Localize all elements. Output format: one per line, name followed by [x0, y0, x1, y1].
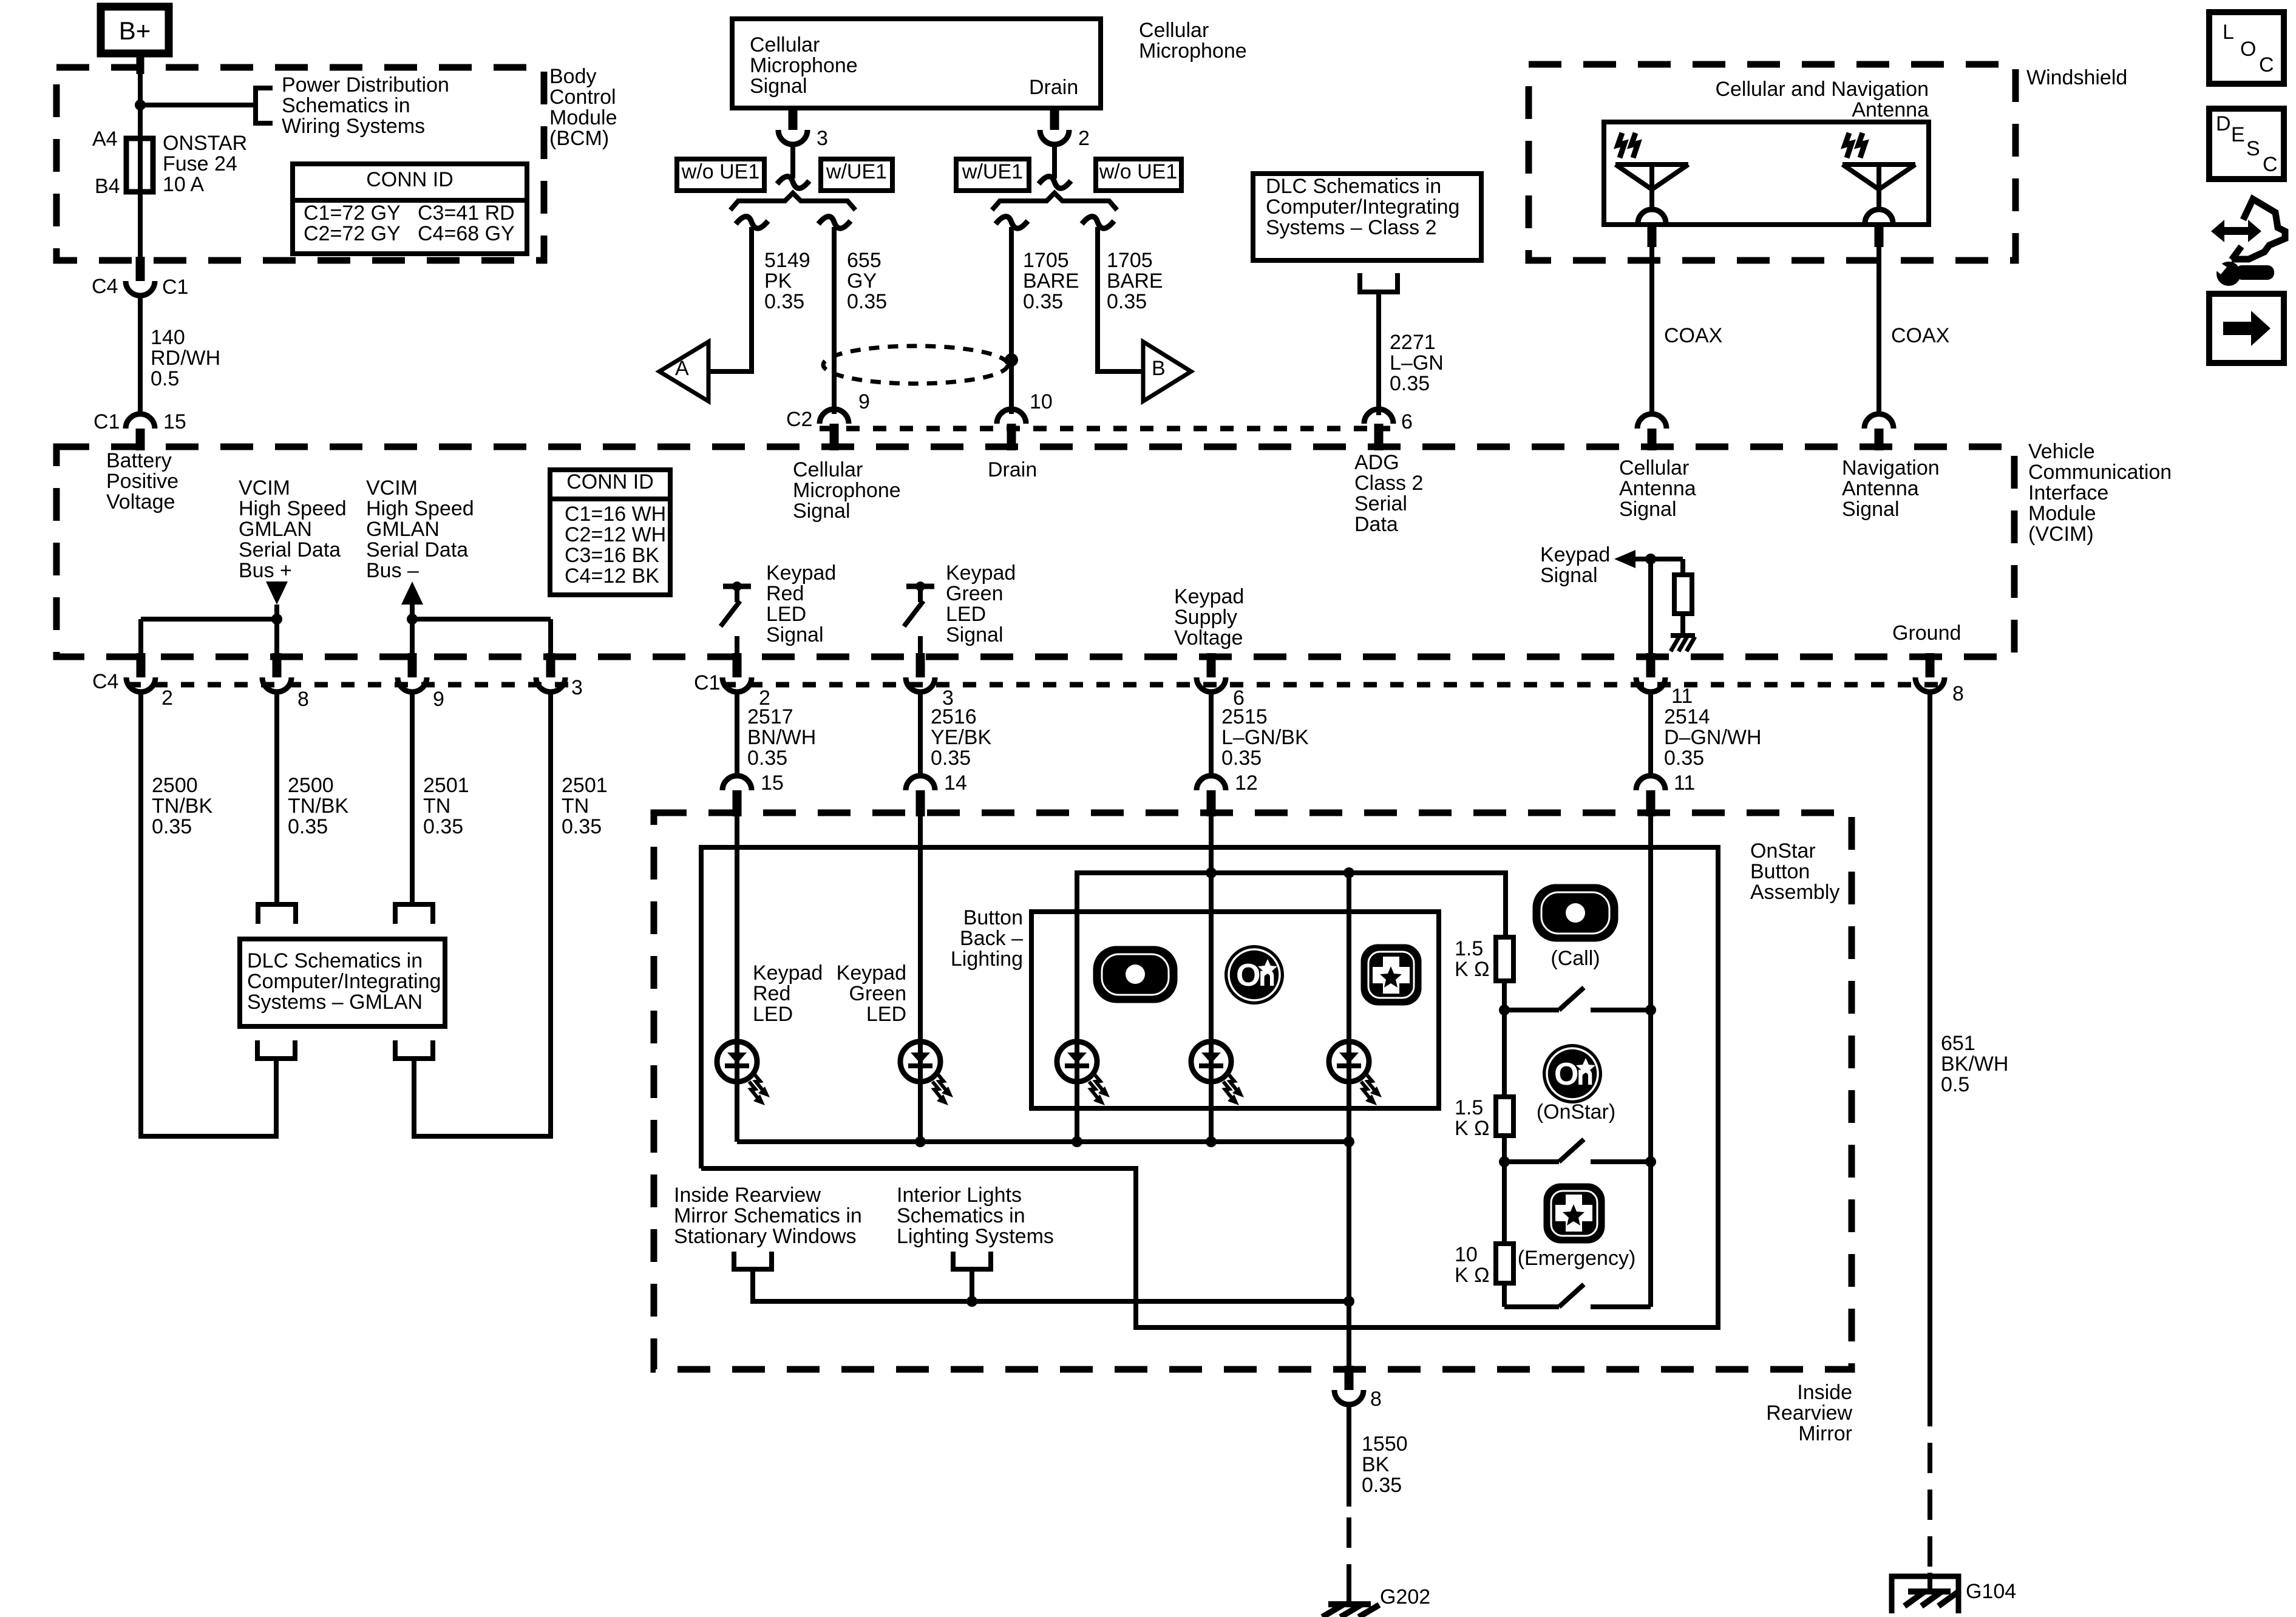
LED backlight 1	[1057, 912, 1110, 1142]
label Cellular Antenna Signal	[1619, 456, 1696, 521]
svg-text:11: 11	[1674, 771, 1695, 795]
shield ellipse (dashed)	[823, 346, 1008, 384]
svg-text:B+: B+	[119, 16, 151, 45]
label Keypad Green LED Signal	[946, 561, 1016, 646]
LED keypad green	[900, 1042, 953, 1142]
wire 2514 D-GN/WH 0.35	[1648, 692, 1653, 776]
wire GMLAN bus - internal	[412, 605, 551, 654]
label VCIM High Speed GMLAN Serial Data Bus +	[239, 476, 347, 582]
dashed box Body Control Module BCM	[56, 67, 544, 260]
svg-text:COAX: COAX	[1891, 324, 1949, 347]
wire switch feed from pin 11	[1648, 816, 1653, 1307]
label C2	[786, 408, 812, 431]
component box OnStar Button Assembly	[701, 847, 1718, 1327]
label 2500 TN/BK 0.35 (pin 8)	[288, 774, 348, 838]
antenna symbol cellular	[1615, 133, 1688, 223]
wire 2515 L-GN/BK 0.35	[1209, 692, 1214, 776]
dashed box Inside Rearview Mirror	[654, 813, 1852, 1369]
label (Emergency)	[1518, 1247, 1636, 1270]
switch emergency	[1504, 1284, 1651, 1307]
wire 1705 BARE 0.35 (right)	[1098, 227, 1143, 371]
wire 2271 L-GN 0.35	[1376, 292, 1381, 415]
label Keypad Signal	[1540, 543, 1610, 587]
wire keypad supply from pin 12	[1209, 816, 1214, 912]
off-page bracket GMLAN bus- top	[395, 904, 433, 924]
driver symbol keypad red LED	[721, 581, 751, 654]
node interior lights junction	[966, 1296, 977, 1307]
svg-text:3: 3	[817, 127, 828, 150]
svg-text:C1: C1	[162, 276, 188, 299]
wire 2500 TN/BK 0.35 (pin 8)	[274, 692, 279, 904]
label OnStar Button Assembly	[1750, 839, 1839, 904]
antenna symbol navigation	[1843, 133, 1915, 223]
label Keypad Red LED	[753, 961, 823, 1026]
svg-text:8: 8	[1952, 682, 1964, 705]
svg-text:C1=16 WHC2=12 WHC3=16 BKC4=12: C1=16 WHC2=12 WHC3=16 BKC4=12 BK	[565, 503, 666, 588]
label 2514 D-GN/WH 0.35	[1664, 705, 1762, 770]
svg-text:CONN ID: CONN ID	[366, 168, 453, 191]
wire onstar resistor to switch	[1502, 1136, 1507, 1162]
wire keypad signal to pin 11	[1648, 559, 1653, 654]
svg-text:C2: C2	[786, 408, 812, 431]
label Drain (VCIM)	[988, 458, 1037, 481]
label Button Back - Lighting	[951, 906, 1023, 971]
off-page triangle B	[1143, 342, 1191, 401]
svg-text:Drain: Drain	[1029, 76, 1078, 99]
wire to Power Distribution reference	[140, 103, 256, 107]
label 2271 L-GN 0.35	[1390, 331, 1444, 395]
label 1.5 K ohm (call)	[1455, 937, 1490, 981]
label Keypad Green LED	[837, 961, 906, 1026]
component box antenna assembly	[1604, 122, 1929, 225]
svg-text:COAX: COAX	[1664, 324, 1722, 347]
connector line C4 (dotted)	[127, 682, 571, 688]
option brace mic signal	[730, 193, 855, 210]
label 5149 PK 0.35	[764, 249, 810, 313]
wire emergency resistor to switch	[1502, 1283, 1507, 1307]
off-page bracket GMLAN bus- bottom	[395, 1040, 433, 1059]
label C4	[92, 670, 118, 693]
svg-text:9: 9	[433, 688, 444, 711]
node LED bus backlight2	[1206, 1136, 1217, 1147]
off-page bracket DLC class 2	[1360, 273, 1398, 292]
icon arrow	[2209, 294, 2284, 363]
label Ground	[1892, 622, 1961, 645]
svg-text:C: C	[2259, 53, 2274, 76]
wire 655 GY 0.35	[832, 227, 837, 414]
wire resistor to call switch	[1502, 981, 1507, 1010]
svg-text:12: 12	[1235, 771, 1258, 795]
node call switch	[1499, 1005, 1510, 1015]
splice break wire 1705 left top	[996, 217, 1028, 229]
backlight button icon call	[1096, 949, 1175, 1000]
label Body Control Module (BCM)	[549, 65, 617, 150]
wire LED cathode bus	[737, 1139, 1349, 1144]
label 1.5 K ohm (onstar)	[1455, 1096, 1490, 1140]
connector C1 pin 3	[906, 653, 954, 710]
label Battery Positive Voltage	[106, 449, 178, 514]
button icon emergency	[1546, 1186, 1602, 1241]
wire keypad supply bus	[1077, 873, 1506, 937]
label ADG Class 2 Serial Data	[1354, 451, 1423, 536]
label Power Distribution Schematics in Wiring Systems	[282, 73, 449, 138]
svg-text:2: 2	[161, 686, 173, 710]
svg-text:S: S	[2246, 137, 2260, 160]
resistor keypad signal pull	[1674, 559, 1692, 636]
button icon call	[1535, 887, 1615, 939]
connector pin 3 of microphone	[778, 106, 828, 150]
connector pin 2 of microphone	[1040, 106, 1090, 150]
LED backlight 3	[1329, 873, 1382, 1142]
off-page bracket mirror schematics	[734, 1252, 772, 1269]
svg-text:(Call): (Call)	[1550, 947, 1600, 970]
pin B4	[95, 175, 120, 198]
connector keypad pin 12	[1197, 771, 1258, 816]
off-page bracket interior lights	[953, 1252, 991, 1269]
wire LED return to pin 8	[1347, 1142, 1351, 1366]
off-page bracket GMLAN bus+ top	[258, 904, 296, 924]
dashed box Vehicle Communication Interface Module VCIM	[56, 447, 2014, 657]
label 2500 TN/BK 0.35 (pin 2)	[152, 774, 212, 838]
wire keypad green LED feed	[918, 816, 923, 1043]
backlight button icon onstar	[1224, 945, 1284, 1005]
svg-text:9: 9	[858, 390, 870, 413]
svg-text:A4: A4	[92, 127, 118, 151]
svg-text:D: D	[2216, 112, 2231, 135]
svg-text:14: 14	[944, 771, 967, 795]
svg-text:w/UE1: w/UE1	[962, 160, 1023, 183]
node LED bus to ground wire	[1343, 1136, 1354, 1147]
LED keypad red	[717, 1042, 770, 1142]
splice break wire 1705 right top	[1082, 217, 1114, 229]
label Cellular Microphone (component name)	[1139, 19, 1247, 63]
node LED bus backlight1	[1072, 1136, 1082, 1147]
splice break on drain stem	[1039, 177, 1071, 189]
svg-text:C1: C1	[93, 410, 120, 433]
connector C1 pin 11	[1636, 653, 1693, 708]
component box button back-lighting	[1031, 912, 1439, 1108]
svg-text:C4: C4	[92, 275, 118, 298]
connector keypad pin 11 (assembly)	[1636, 771, 1695, 816]
label Vehicle Communication Interface Module (VCIM)	[2028, 440, 2172, 546]
svg-text:O: O	[1236, 958, 1260, 993]
label 651 BK/WH 0.5	[1941, 1032, 2008, 1096]
label COAX (navigation)	[1891, 324, 1949, 347]
wire call to onstar resistor	[1502, 1010, 1507, 1097]
wire B+ feed into BCM	[137, 52, 144, 138]
svg-text:11: 11	[1671, 685, 1693, 708]
connector C2 pin 10	[997, 390, 1053, 450]
svg-text:(Emergency): (Emergency)	[1518, 1247, 1636, 1270]
wire COAX navigation	[1875, 223, 1884, 415]
connector keypad pin 14	[906, 771, 967, 816]
svg-text:DLC Schematics inComputer/Inte: DLC Schematics inComputer/IntegratingSys…	[1266, 175, 1459, 239]
svg-text:E: E	[2231, 123, 2245, 146]
wire 2517 BN/WH 0.35	[735, 692, 739, 776]
svg-text:DLC Schematics inComputer/Inte: DLC Schematics inComputer/IntegratingSys…	[247, 949, 441, 1014]
splice break wire 5149 top	[736, 217, 768, 229]
wire 2501 TN 0.35 (pin 9)	[410, 692, 415, 904]
wire mirror schematics to ground bus	[753, 1269, 1349, 1301]
svg-text:Windshield: Windshield	[2026, 66, 2127, 89]
svg-text:Drain: Drain	[988, 458, 1037, 481]
connector keypad pin 15	[722, 771, 784, 816]
wire 140 RD/WH 0.5	[138, 296, 143, 415]
svg-text:KeypadSupplyVoltage: KeypadSupplyVoltage	[1174, 585, 1244, 649]
wire keypad red LED feed	[735, 816, 739, 1043]
svg-text:A: A	[675, 357, 689, 380]
svg-text:w/o UE1: w/o UE1	[681, 160, 760, 183]
wire 2516 YE/BK 0.35	[918, 692, 923, 776]
svg-text:8: 8	[297, 688, 309, 711]
svg-text:G104: G104	[1966, 1580, 2016, 1603]
label Inside Rearview Mirror Schematics in Stationary Windows	[674, 1184, 862, 1248]
resistor 10K emergency	[1496, 1244, 1513, 1283]
node junction on B+ feed	[135, 100, 146, 110]
svg-text:w/o UE1: w/o UE1	[1099, 160, 1178, 183]
label C1	[694, 671, 720, 694]
label Inside Rearview Mirror	[1766, 1381, 1852, 1445]
svg-text:CONN ID: CONN ID	[566, 470, 654, 493]
svg-text:6: 6	[1401, 410, 1413, 433]
switch call	[1504, 988, 1651, 1010]
bus - arrow	[401, 581, 423, 605]
LED backlight 2	[1191, 912, 1244, 1142]
node keypad signal junction	[1645, 554, 1656, 564]
connector C4 pin 8	[262, 653, 309, 711]
label ONSTAR Fuse 24 10 A	[163, 132, 247, 196]
splice break on mic signal stem	[777, 177, 809, 189]
ground internal VCIM	[1671, 636, 1695, 651]
option box w/o UE1 (mic signal)	[677, 159, 764, 191]
node supply junction pin12	[1206, 867, 1217, 878]
wire COAX cellular	[1648, 223, 1657, 415]
node LED bus green	[915, 1136, 926, 1147]
svg-text:C4: C4	[92, 670, 118, 693]
connector C1 pin 2	[722, 653, 770, 710]
connector C2 pin 6	[1364, 409, 1413, 450]
label Cellular Microphone Signal (pin)	[750, 33, 858, 98]
label 140 RD/WH 0.5	[151, 326, 220, 390]
bus + arrow	[266, 581, 288, 605]
connector C4 pin 3	[536, 653, 583, 699]
node shield drain junction	[1005, 353, 1018, 367]
label 2515 L-GN/BK 0.35	[1221, 705, 1309, 770]
label 2516 YE/BK 0.35	[931, 705, 991, 770]
label 1550 BK 0.35	[1362, 1432, 1408, 1497]
svg-text:B: B	[1152, 357, 1166, 380]
button icon onstar	[1543, 1044, 1602, 1103]
svg-text:L: L	[2223, 21, 2234, 44]
wire from mic pin 3	[790, 144, 795, 178]
svg-text:w/UE1: w/UE1	[826, 160, 887, 183]
label 10 K ohm (emergency)	[1455, 1243, 1490, 1287]
table CONN ID (BCM)	[293, 164, 527, 254]
option brace drain	[992, 193, 1117, 210]
label (Call)	[1550, 947, 1600, 970]
wire 651 BK/WH 0.5	[1927, 692, 1932, 1573]
wire 2501 TN 0.35 (pin 3)	[414, 692, 551, 1136]
svg-text:C1: C1	[694, 671, 720, 694]
connector C1 pin 15 at VCIM	[93, 410, 186, 450]
table CONN ID (VCIM)	[550, 470, 670, 595]
resistor 1.5K onstar	[1496, 1097, 1513, 1136]
icon jump double-arrow with wrench	[2211, 199, 2285, 286]
svg-text:O: O	[1554, 1057, 1578, 1092]
connector C1 pin 8 ground	[1915, 653, 1964, 705]
label Cellular and Navigation Antenna	[1715, 78, 1929, 121]
label (OnStar)	[1537, 1100, 1615, 1124]
off-page bracket GMLAN bus+ bottom	[257, 1040, 295, 1059]
svg-text:Ground: Ground	[1892, 622, 1961, 645]
connector C4 pin 9	[398, 653, 444, 711]
wire GMLAN bus + internal	[141, 605, 277, 654]
ground G104 enclosure	[1892, 1576, 1958, 1613]
svg-text:15: 15	[761, 771, 784, 795]
label Interior Lights Schematics in Lighting Systems	[897, 1184, 1054, 1248]
connector VCIM navigation antenna	[1864, 414, 1894, 450]
power symbol B+	[101, 7, 169, 53]
connector C4/C1 at BCM output	[92, 257, 188, 299]
wire 5149 PK 0.35	[708, 227, 752, 371]
wire from mic pin 2	[1052, 144, 1057, 178]
reference box DLC Schematics Class 2	[1253, 174, 1481, 260]
label 1705 BARE 0.35 (right)	[1107, 249, 1163, 313]
svg-text:10: 10	[1030, 390, 1053, 413]
connector C4 pin 2	[126, 653, 173, 710]
label Windshield	[2026, 66, 2127, 89]
svg-text:G202: G202	[1380, 1585, 1430, 1609]
label COAX (cellular)	[1664, 324, 1722, 347]
dashed box Windshield	[1529, 64, 2016, 260]
label 2517 BN/WH 0.35	[747, 705, 816, 770]
label Keypad Red LED Signal	[766, 561, 836, 646]
driver symbol keypad green LED	[904, 581, 934, 654]
label 1705 BARE 0.35 (left)	[1023, 249, 1079, 313]
ground G104	[1904, 1573, 2016, 1606]
wire fuse to BCM connector	[138, 192, 143, 258]
connector line C1 (dotted)	[722, 682, 1943, 688]
wire 1550 BK 0.35	[1347, 1405, 1351, 1604]
connector mirror pin 8	[1334, 1366, 1382, 1411]
node onstar switch	[1499, 1156, 1510, 1167]
label Drain (pin)	[1029, 76, 1078, 99]
wire onstar to emergency resistor	[1502, 1162, 1507, 1244]
label 2501 TN 0.35 (pin 3)	[562, 774, 608, 838]
resistor 1.5K call	[1496, 937, 1513, 981]
option box w/UE1 (mic signal)	[821, 159, 892, 191]
svg-text:(OnStar): (OnStar)	[1537, 1100, 1615, 1124]
backlight button icon emergency	[1364, 947, 1419, 1003]
switch onstar	[1504, 1139, 1651, 1162]
pin A4	[92, 127, 118, 151]
node bus + junction	[271, 614, 282, 625]
node supply junction backlight 3	[1343, 867, 1354, 878]
label Navigation Antenna Signal	[1842, 456, 1940, 521]
node call output	[1645, 1005, 1656, 1015]
wire 1705 BARE 0.35 (left)	[1009, 227, 1014, 414]
off-page triangle A	[659, 342, 708, 401]
component box Cellular Microphone	[732, 19, 1101, 108]
svg-text:C1=72 GYC2=72 GY: C1=72 GYC2=72 GY	[304, 202, 401, 245]
option box w/o UE1 (drain)	[1096, 159, 1181, 191]
option box w/UE1 (drain)	[956, 159, 1029, 191]
reference box DLC Schematics GMLAN	[240, 939, 445, 1026]
svg-text:C3=41 RDC4=68 GY: C3=41 RDC4=68 GY	[418, 202, 515, 245]
svg-text:BatteryPositiveVoltage: BatteryPositiveVoltage	[106, 449, 178, 514]
connector C2 pin 9	[820, 390, 870, 450]
svg-text:3: 3	[571, 676, 583, 699]
svg-text:2: 2	[1078, 127, 1090, 150]
label Keypad Supply Voltage	[1174, 585, 1244, 649]
wire interior lights to ground bus	[970, 1269, 974, 1301]
svg-text:C: C	[2263, 153, 2278, 176]
icon LOC	[2209, 12, 2284, 84]
label Cellular Microphone Signal (VCIM)	[793, 458, 901, 523]
svg-text:15: 15	[163, 410, 186, 433]
node onstar output	[1645, 1156, 1656, 1167]
connector line C2 (dotted)	[820, 426, 1390, 432]
label 2501 TN 0.35 (pin 9)	[423, 774, 469, 838]
svg-text:O: O	[2240, 38, 2256, 61]
node ground bus junction	[1343, 1296, 1354, 1307]
off-page bracket Power Distribution	[256, 86, 273, 126]
keypad signal arrow	[1614, 550, 1683, 568]
icon DESC	[2209, 109, 2284, 179]
svg-text:8: 8	[1370, 1388, 1382, 1411]
ground G202	[1322, 1585, 1430, 1617]
label 655 GY 0.35	[847, 249, 887, 313]
node bus - junction	[407, 614, 418, 625]
label VCIM High Speed GMLAN Serial Data Bus -	[366, 476, 474, 582]
splice break wire 655 top	[818, 217, 851, 229]
wire 2500 TN/BK 0.35 (pin 2)	[141, 692, 276, 1136]
svg-text:B4: B4	[95, 175, 120, 198]
connector C1 pin 6	[1197, 653, 1245, 710]
connector VCIM cellular antenna	[1637, 414, 1666, 450]
fuse ONSTAR Fuse 24 10A	[126, 138, 153, 192]
